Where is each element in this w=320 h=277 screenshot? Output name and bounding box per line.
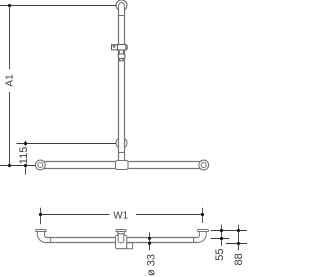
svg-text:ø 33: ø 33 bbox=[145, 254, 157, 276]
svg-text:88: 88 bbox=[233, 253, 245, 265]
svg-text:W1: W1 bbox=[113, 211, 128, 222]
svg-text:A1: A1 bbox=[4, 74, 15, 87]
svg-text:115: 115 bbox=[18, 147, 30, 165]
svg-text:55: 55 bbox=[214, 248, 226, 260]
